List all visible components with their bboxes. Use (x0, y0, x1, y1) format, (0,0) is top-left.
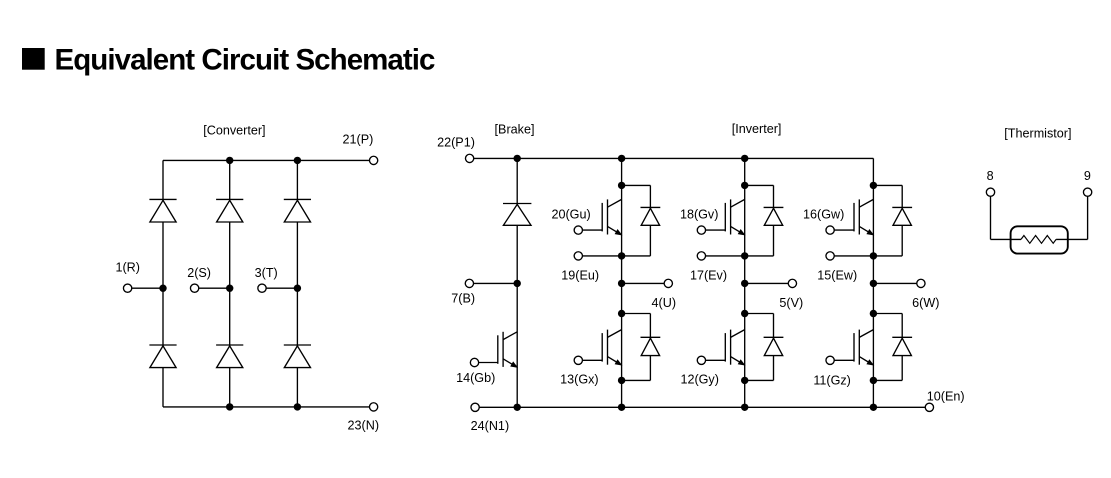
svg-text:3(T): 3(T) (255, 266, 278, 280)
svg-text:24(N1): 24(N1) (471, 419, 510, 433)
svg-text:[Converter]: [Converter] (203, 123, 265, 137)
svg-text:12(Gy): 12(Gy) (680, 373, 719, 387)
svg-text:7(B): 7(B) (451, 292, 475, 306)
svg-text:15(Ew): 15(Ew) (817, 269, 857, 283)
svg-text:1(R): 1(R) (115, 261, 140, 275)
svg-text:10(En): 10(En) (927, 389, 965, 403)
svg-text:Equivalent Circuit Schematic: Equivalent Circuit Schematic (55, 44, 436, 77)
svg-text:[Brake]: [Brake] (495, 122, 535, 136)
svg-text:20(Gu): 20(Gu) (551, 208, 590, 222)
svg-text:22(P1): 22(P1) (437, 136, 475, 150)
svg-text:14(Gb): 14(Gb) (456, 371, 495, 385)
svg-text:[Thermistor]: [Thermistor] (1004, 127, 1071, 141)
svg-text:17(Ev): 17(Ev) (690, 269, 727, 283)
svg-text:[Inverter]: [Inverter] (732, 122, 782, 136)
svg-text:4(U): 4(U) (652, 296, 677, 310)
svg-text:11(Gz): 11(Gz) (813, 373, 851, 387)
svg-text:8: 8 (987, 169, 994, 183)
svg-text:9: 9 (1084, 169, 1091, 183)
svg-text:13(Gx): 13(Gx) (560, 373, 599, 387)
svg-text:18(Gv): 18(Gv) (680, 208, 719, 222)
svg-text:6(W): 6(W) (912, 296, 939, 310)
svg-text:16(Gw): 16(Gw) (803, 208, 844, 222)
svg-text:5(V): 5(V) (779, 296, 803, 310)
svg-text:2(S): 2(S) (187, 266, 211, 280)
svg-text:19(Eu): 19(Eu) (561, 269, 599, 283)
svg-text:23(N): 23(N) (348, 419, 380, 433)
svg-text:21(P): 21(P) (343, 133, 374, 147)
